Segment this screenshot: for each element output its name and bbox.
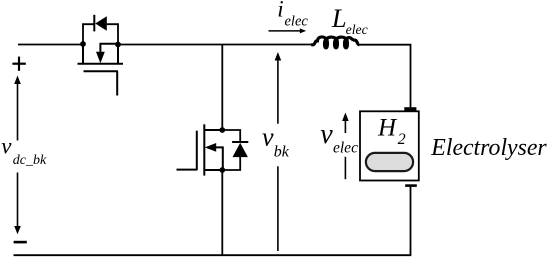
electrolyser top terminal bar (404, 107, 416, 110)
arrow: v_dc_bk measurement arrow upper half (14, 76, 21, 141)
svg-text:bk: bk (274, 144, 290, 161)
svg-text:L: L (331, 3, 347, 33)
diode D1 triangle (95, 16, 107, 31)
svg-text:elec: elec (285, 14, 309, 30)
wire: top rail from + input terminal to Q1 drain node (18, 44, 83, 46)
transistor Q1 source arrow head (96, 52, 105, 63)
diode D1 (anti-parallel diode of Q1) (83, 15, 118, 45)
svg-text:2: 2 (398, 131, 406, 148)
svg-text:v: v (1, 134, 12, 159)
electrolyser bottom terminal bar (405, 184, 417, 187)
label: v_elec (320, 119, 358, 157)
svg-text:H: H (377, 115, 398, 142)
junction dot: Q1 drain node (80, 41, 86, 47)
label: i_elec (277, 0, 308, 30)
plus sign: input + terminal (12, 57, 25, 71)
svg-text:elec: elec (346, 22, 368, 37)
svg-text:Electrolyser: Electrolyser (430, 134, 547, 161)
wire: node A branch down to Q2 drain (221, 45, 223, 131)
svg-text:v: v (262, 123, 274, 152)
junction dot: Q1 source node (115, 42, 121, 48)
diode D2 (anti-parallel diode of Q2) (222, 130, 248, 170)
electrolyser gas capsule (366, 153, 413, 171)
wire: Q2 source down to bottom rail (221, 170, 223, 255)
wire: electrolyser cathode down to bottom rail and return to - terminal (14, 187, 411, 255)
arrow: v_dc_bk measurement arrow lower half (14, 173, 21, 235)
svg-text:i: i (277, 0, 283, 21)
label: L_elec (331, 3, 368, 37)
arrow: v_bk measurement arrow (275, 52, 282, 251)
wire: top rail from inductor to electrolyser anode, corner down (359, 45, 411, 108)
transistor Q1 (high-side MOSFET, horizontal) (78, 44, 124, 96)
label: v_bk (262, 123, 290, 161)
svg-text:elec: elec (333, 140, 358, 157)
label: v_dc_bk (1, 134, 47, 168)
wire: top rail from Q1 source node through node A to inductor (118, 44, 313, 46)
diode D2 triangle (233, 143, 248, 157)
inductor L_elec coil (311, 37, 359, 48)
electrolyser cell body (360, 111, 419, 180)
svg-text:v: v (320, 119, 333, 150)
transistor Q2 gate arrow head (205, 143, 216, 152)
junction dot: Q2 drain node (219, 127, 225, 133)
arrow: v_elec measurement arrow (342, 113, 349, 180)
junction dot: Q2 source node (219, 167, 225, 173)
label: H2 inside electrolyser (377, 115, 406, 148)
svg-text:dc_bk: dc_bk (13, 153, 47, 168)
transistor Q2 (low-side MOSFET, vertical) (177, 124, 223, 175)
arrow: i_elec current arrow (269, 28, 307, 33)
minus sign: input - terminal (14, 241, 27, 244)
